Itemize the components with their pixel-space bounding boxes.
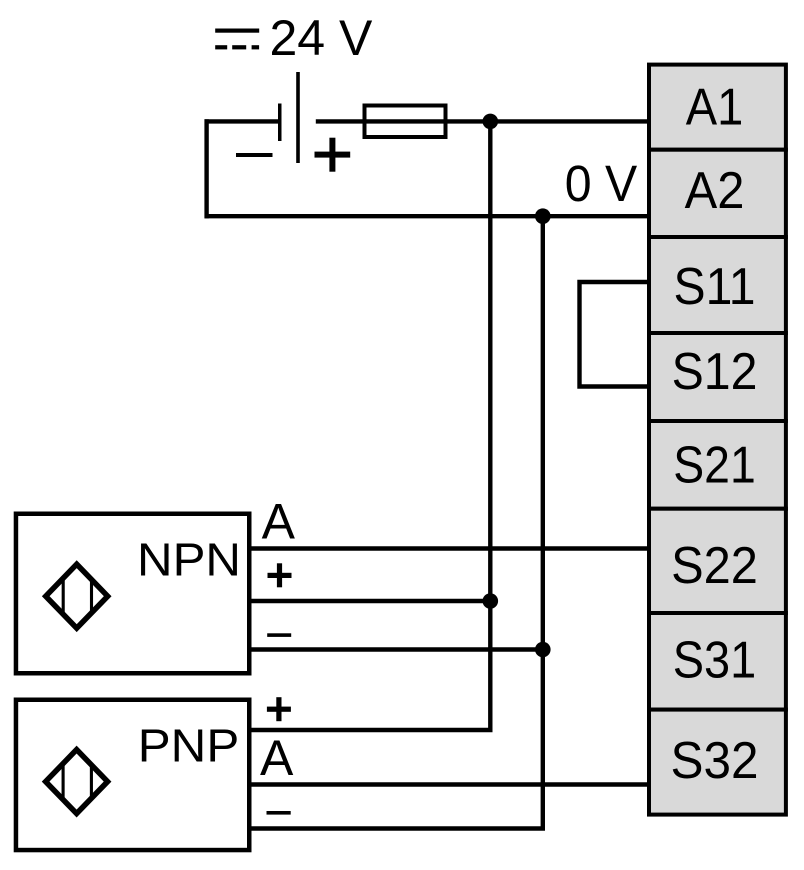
label minus (PNP): [267, 811, 291, 815]
battery plus label: [315, 138, 351, 172]
sensor box PNP: [16, 700, 249, 850]
battery minus label: [236, 153, 273, 157]
label plus (NPN): [268, 563, 292, 587]
terminal A2: [649, 150, 786, 237]
wire jumper S11-S12: [580, 282, 650, 387]
battery BT1 positive plate: [296, 72, 300, 163]
wire battery negative feed: [205, 119, 279, 123]
proximity sensor symbol PNP: [46, 750, 108, 814]
node junction dot NPN minus: [535, 642, 551, 658]
svg-text:S32: S32: [671, 732, 759, 790]
svg-text:S21: S21: [673, 437, 756, 495]
terminal A1: [649, 65, 786, 150]
node junction dot 0V/vertical2: [535, 208, 551, 224]
svg-text:24 V: 24 V: [270, 10, 374, 66]
wire vertical net 1: [488, 121, 492, 730]
label minus (NPN): [267, 633, 291, 637]
svg-text:PNP: PNP: [138, 720, 240, 772]
svg-text:A2: A2: [685, 162, 745, 220]
proximity sensor symbol NPN: [46, 564, 108, 628]
svg-text:A1: A1: [686, 78, 744, 136]
svg-text:S31: S31: [673, 632, 757, 690]
terminal S11: [649, 237, 786, 333]
svg-text:S11: S11: [674, 258, 756, 316]
DC symbol: [215, 29, 259, 50]
wire NPN plus: [249, 599, 490, 603]
svg-text:A: A: [260, 730, 294, 786]
svg-text:S22: S22: [671, 537, 758, 595]
svg-text:0 V: 0 V: [565, 155, 638, 212]
sensor box NPN: [16, 514, 249, 674]
wire PNP plus: [249, 728, 493, 732]
terminal S21: [649, 421, 786, 509]
fuse F1: [365, 106, 446, 138]
wire 24V supply to A1: [316, 119, 649, 123]
wire 0V rail: [205, 214, 649, 218]
wire NPN minus: [249, 647, 543, 651]
wire vertical net 2: [541, 216, 545, 828]
svg-text:A: A: [262, 494, 296, 550]
terminal S22: [649, 509, 786, 613]
terminal S12: [649, 333, 786, 421]
label plus (PNP): [267, 697, 291, 721]
wire PNP minus: [249, 826, 545, 830]
node junction dot supply/vertical1: [483, 114, 499, 130]
wire NPN A to S22: [249, 546, 649, 550]
svg-text:S12: S12: [672, 343, 758, 401]
terminal S31: [649, 613, 786, 710]
svg-text:NPN: NPN: [137, 534, 241, 586]
wire PNP A to S32: [249, 782, 649, 786]
battery BT1 negative plate: [278, 104, 282, 142]
wire left vertical: [204, 119, 208, 218]
terminal S32: [649, 710, 786, 815]
node junction dot NPN plus: [483, 593, 499, 609]
